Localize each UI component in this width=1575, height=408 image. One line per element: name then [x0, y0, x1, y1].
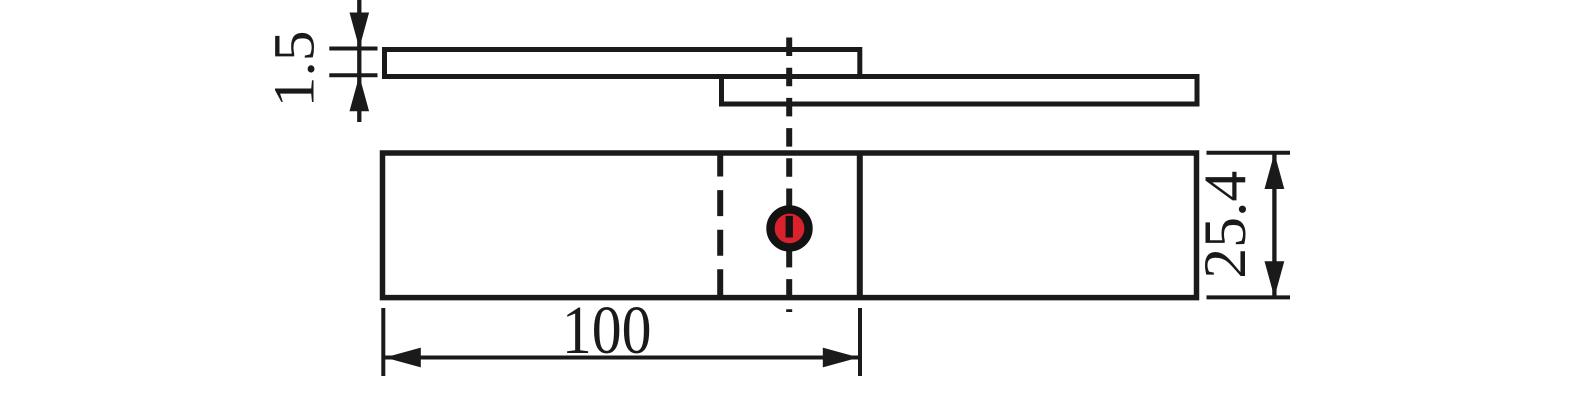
dimension 1.5: dimension line: [357, 0, 361, 122]
dimension 100: right extension line: [858, 308, 862, 376]
weld centerline (dashed): [786, 38, 792, 313]
top sheet (side view): [385, 50, 860, 77]
specimen outline (plan view): [383, 153, 1197, 298]
dimension 100: left arrowhead: [385, 348, 421, 368]
dimension 25.4: dimension line: [1272, 153, 1276, 297]
svg-text:1.5: 1.5: [262, 30, 326, 107]
dimension 25.4: top arrowhead: [1265, 153, 1285, 189]
dimension 1.5: extension tick bottom: [329, 73, 377, 77]
dimension 25.4: bottom arrowhead: [1265, 261, 1285, 297]
dimension 1.5: lower arrowhead: [350, 76, 370, 112]
dimension 100: right arrowhead: [823, 348, 859, 368]
bottom sheet (side view): [722, 77, 1198, 105]
visible lap edge: [857, 153, 863, 298]
dimension 25.4: top extension line: [1207, 151, 1291, 155]
dimension 1.5: upper arrowhead: [350, 13, 370, 49]
dimension 25.4: bottom extension line: [1207, 295, 1291, 299]
dimension 1.5: extension tick top: [329, 47, 377, 51]
dimension 100: dimension line: [385, 356, 859, 360]
svg-text:25.4: 25.4: [1193, 171, 1259, 279]
spot weld nugget ring: [771, 209, 809, 247]
svg-text:100: 100: [562, 291, 652, 368]
hidden overlap edge (dashed): [717, 151, 723, 298]
centerline dash over nugget: [786, 216, 793, 238]
dimension 100: left extension line: [381, 308, 385, 376]
